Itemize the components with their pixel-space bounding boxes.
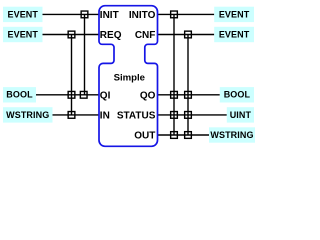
svg-text:Simple: Simple (114, 72, 145, 83)
svg-text:WSTRING: WSTRING (210, 130, 253, 140)
svg-text:UINT: UINT (230, 110, 252, 120)
svg-text:BOOL: BOOL (224, 90, 251, 100)
svg-text:EVENT: EVENT (7, 9, 38, 19)
svg-text:CNF: CNF (135, 30, 156, 41)
svg-text:EVENT: EVENT (219, 29, 250, 39)
svg-text:OUT: OUT (134, 131, 155, 142)
svg-text:BOOL: BOOL (6, 90, 33, 100)
svg-text:INIT: INIT (100, 10, 119, 21)
svg-text:WSTRING: WSTRING (6, 110, 49, 120)
svg-text:IN: IN (100, 111, 110, 122)
svg-text:EVENT: EVENT (7, 29, 38, 39)
svg-text:REQ: REQ (100, 30, 122, 41)
svg-text:QI: QI (100, 90, 111, 101)
svg-text:INITO: INITO (129, 10, 156, 21)
svg-text:QO: QO (140, 90, 156, 101)
svg-text:EVENT: EVENT (219, 9, 250, 19)
svg-text:STATUS: STATUS (117, 111, 156, 122)
